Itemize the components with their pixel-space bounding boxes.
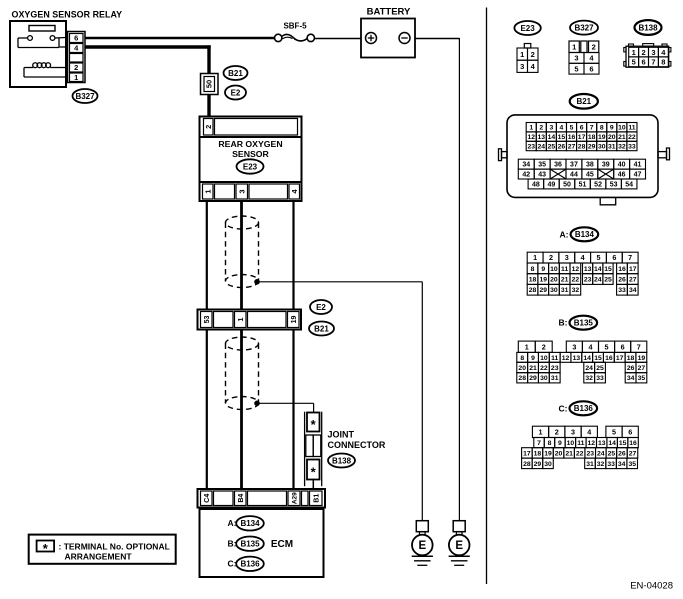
svg-text:25: 25 [604,276,612,283]
svg-text:17: 17 [578,134,586,141]
ground E (right) [449,521,470,566]
svg-text:4: 4 [589,54,594,63]
svg-text:31: 31 [608,143,616,150]
svg-text:27: 27 [629,450,637,457]
svg-text:B135: B135 [240,540,260,549]
svg-text:22: 22 [628,134,636,141]
svg-text:10: 10 [550,266,558,273]
svg-text:9: 9 [610,125,614,132]
svg-text:*: * [43,541,49,556]
svg-text:27: 27 [638,365,646,372]
wire 1 down to ECM B4 [240,330,243,490]
svg-text:3: 3 [565,253,569,262]
svg-text:20: 20 [555,450,563,457]
svg-text:2: 2 [641,48,645,57]
svg-text:30: 30 [550,287,558,294]
svg-text:13: 13 [598,440,606,447]
svg-text:10: 10 [618,125,626,132]
svg-text:8: 8 [520,355,524,362]
svg-text:B136: B136 [240,560,260,569]
svg-text:50: 50 [563,181,571,188]
svg-text:28: 28 [529,287,537,294]
pinout B21 oval [570,94,598,109]
svg-text:: TERMINAL No. OPTIONAL: : TERMINAL No. OPTIONAL [59,542,170,552]
svg-text:18: 18 [534,450,542,457]
svg-text:19: 19 [291,316,298,324]
svg-text:6: 6 [641,58,645,67]
svg-text:14: 14 [583,355,591,362]
svg-text:29: 29 [534,461,542,468]
svg-text:12: 12 [587,440,595,447]
svg-text:47: 47 [634,172,642,179]
svg-text:38: 38 [586,162,594,169]
svg-text:8: 8 [600,125,604,132]
svg-text:36: 36 [554,162,562,169]
svg-text:52: 52 [594,181,602,188]
shield twisted pair 1 (dashed) [226,216,259,288]
svg-text:32: 32 [618,143,626,150]
connector B21 oval label (top) [224,66,248,80]
wire sensor pin4 down [292,201,294,310]
junction dot shield 1 [254,279,260,285]
wire sensor pin1 down [206,201,208,310]
svg-text:E23: E23 [520,24,535,33]
svg-text:24: 24 [585,365,593,372]
svg-text:A:: A: [228,518,237,528]
svg-text:35: 35 [628,461,636,468]
svg-text:17: 17 [523,450,531,457]
wire 19 down to ECM A29 [292,330,294,490]
svg-text:5: 5 [570,125,574,132]
svg-text:14: 14 [608,440,616,447]
svg-text:32: 32 [597,461,605,468]
svg-text:34: 34 [522,162,530,169]
svg-text:34: 34 [629,287,637,294]
svg-text:10: 10 [567,440,575,447]
fuse SBF-5 [275,22,315,42]
svg-text:13: 13 [584,266,592,273]
svg-text:42: 42 [522,172,530,179]
inline connector 50 [201,74,219,95]
svg-text:27: 27 [629,276,637,283]
relay internal top bar [29,26,55,32]
pinout C:B136 label [559,401,598,415]
svg-text:1: 1 [74,73,78,82]
svg-text:2: 2 [539,125,543,132]
svg-text:25: 25 [596,365,604,372]
svg-text:B1: B1 [313,494,320,503]
svg-text:E2: E2 [231,88,241,97]
svg-text:B138: B138 [638,23,658,32]
svg-text:45: 45 [586,172,594,179]
svg-text:7: 7 [651,58,655,67]
svg-text:12: 12 [527,134,535,141]
relay connector strip pins 6 4 2 1 [68,32,86,83]
svg-text:15: 15 [619,440,627,447]
svg-text:11: 11 [551,355,558,362]
wire relay pin4 horizontal (thick) [85,45,211,48]
wire relay pin4 vertical to connector 50 [207,45,210,73]
svg-text:2: 2 [204,125,213,129]
svg-text:6: 6 [580,125,584,132]
svg-text:29: 29 [529,375,537,382]
rear oxygen sensor body E23 [200,137,302,182]
svg-text:3: 3 [572,342,576,351]
svg-text:B134: B134 [240,519,260,528]
svg-text:30: 30 [540,375,548,382]
svg-text:37: 37 [570,162,578,169]
svg-text:EN-04028: EN-04028 [630,581,673,592]
svg-text:22: 22 [540,365,548,372]
wire fuse to battery [315,38,361,40]
svg-text:18: 18 [588,134,596,141]
svg-text:31: 31 [561,287,569,294]
pinout B21 grid rows 34-47 [518,159,645,179]
joint connector B138 [305,412,322,487]
battery [361,7,415,58]
svg-text:23: 23 [586,450,594,457]
pinout B138 oval [635,20,662,35]
svg-text:11: 11 [577,440,584,447]
svg-text:4: 4 [587,427,591,436]
svg-text:9: 9 [531,355,535,362]
svg-text:18: 18 [529,276,537,283]
svg-text:2: 2 [592,42,596,51]
pinout B134 grid [527,252,638,295]
wire joint connector to ECM B1 [312,480,314,490]
svg-text:39: 39 [602,162,610,169]
svg-text:27: 27 [568,143,576,150]
svg-text:A29: A29 [291,492,298,504]
svg-text:48: 48 [532,181,540,188]
svg-text:6: 6 [628,427,632,436]
svg-text:4: 4 [290,189,299,194]
svg-text:7: 7 [628,253,632,262]
wire battery to right ground drop [415,38,459,40]
svg-text:2: 2 [549,253,553,262]
svg-text:25: 25 [548,143,556,150]
svg-text:26: 26 [618,450,626,457]
connector B21 oval label (mid) [309,322,334,336]
svg-text:B138: B138 [332,456,352,465]
svg-text:4: 4 [74,44,79,53]
pinout B135 grid [517,341,647,383]
svg-text:22: 22 [576,450,584,457]
ECM body [200,509,324,577]
svg-text:22: 22 [572,276,580,283]
svg-text:1: 1 [520,50,524,59]
svg-text:E2: E2 [316,303,326,312]
svg-text:53: 53 [610,181,618,188]
svg-text:3: 3 [520,62,524,71]
svg-text:5: 5 [632,58,636,67]
svg-text:3: 3 [237,189,246,193]
svg-text:51: 51 [579,181,587,188]
ECM top strip pins C4 B4 A29 B1 [198,489,326,508]
svg-text:30: 30 [598,143,606,150]
pinout B327 connector [569,41,599,74]
svg-text:21: 21 [529,365,537,372]
svg-text:C:: C: [559,403,568,413]
svg-text:E23: E23 [243,162,258,171]
connector E2 oval label (mid) [310,300,332,314]
svg-text:34: 34 [618,461,626,468]
svg-text:24: 24 [597,450,605,457]
relay coil [24,63,66,77]
svg-text:15: 15 [604,266,612,273]
relay box outline [10,21,66,87]
svg-text:15: 15 [594,355,602,362]
svg-text:28: 28 [523,461,531,468]
svg-text:1: 1 [533,253,537,262]
svg-text:28: 28 [578,143,586,150]
svg-text:32: 32 [572,287,580,294]
svg-text:ECM: ECM [271,539,293,550]
svg-text:3: 3 [549,125,553,132]
svg-text:40: 40 [618,162,626,169]
svg-text:12: 12 [562,355,570,362]
svg-text:2: 2 [542,342,546,351]
svg-text:*: * [311,465,317,480]
svg-text:14: 14 [548,134,556,141]
svg-text:E: E [418,540,426,552]
pinout E23 oval [514,21,540,35]
svg-text:16: 16 [605,355,613,362]
svg-text:REAR OXYGEN: REAR OXYGEN [218,139,282,149]
svg-text:21: 21 [618,134,626,141]
svg-text:3: 3 [574,54,578,63]
svg-text:4: 4 [581,253,585,262]
svg-text:44: 44 [570,172,578,179]
svg-text:SBF-5: SBF-5 [283,22,307,31]
svg-text:20: 20 [608,134,616,141]
pinout B21 grid rows 1-33 [526,123,637,151]
wire connector 50 to sensor [207,95,210,118]
svg-text:28: 28 [518,375,526,382]
svg-text:34: 34 [627,375,635,382]
svg-text:B327: B327 [75,92,95,101]
svg-text:24: 24 [538,143,546,150]
svg-text:1: 1 [572,42,576,51]
svg-text:C4: C4 [204,494,211,503]
svg-text:2: 2 [555,427,559,436]
svg-text:4: 4 [531,62,536,71]
svg-text:21: 21 [561,276,569,283]
svg-text:2: 2 [531,50,535,59]
svg-text:43: 43 [538,172,546,179]
svg-text:8: 8 [661,58,665,67]
wire sensor pin3 down [240,201,243,310]
svg-text:7: 7 [537,440,541,447]
svg-text:16: 16 [568,134,576,141]
wire 53 down to ECM C4 [206,330,208,490]
svg-text:*: * [311,417,317,432]
svg-text:B:: B: [228,539,237,549]
svg-text:35: 35 [538,162,546,169]
svg-text:9: 9 [541,266,545,273]
svg-text:23: 23 [551,365,559,372]
rear oxygen sensor top strip pin 2 [200,117,302,138]
svg-text:6: 6 [589,64,593,73]
svg-text:JOINT: JOINT [328,430,355,440]
joint connector text [328,430,386,451]
svg-text:5: 5 [612,427,616,436]
svg-text:29: 29 [588,143,596,150]
svg-text:25: 25 [608,450,616,457]
svg-text:2: 2 [74,63,78,72]
svg-text:17: 17 [616,355,624,362]
junction dot shield 2 [254,401,260,407]
svg-text:B4: B4 [238,494,245,503]
svg-text:17: 17 [629,266,637,273]
svg-text:CONNECTOR: CONNECTOR [328,440,386,450]
svg-text:26: 26 [627,365,635,372]
svg-text:A:: A: [560,229,569,239]
svg-text:9: 9 [558,440,562,447]
svg-text:19: 19 [539,276,547,283]
svg-text:5: 5 [596,253,600,262]
svg-text:E: E [455,540,463,552]
svg-text:26: 26 [618,276,626,283]
svg-text:10: 10 [540,355,548,362]
svg-text:13: 13 [573,355,581,362]
svg-text:16: 16 [618,266,626,273]
svg-text:BATTERY: BATTERY [367,7,411,18]
pinout B327 oval [570,21,598,35]
panel divider line [486,8,488,585]
svg-text:6: 6 [74,34,78,43]
svg-text:1: 1 [525,342,529,351]
svg-text:33: 33 [607,461,615,468]
pinout A:B134 label [560,227,599,241]
shield twisted pair 2 (dashed) [226,337,259,410]
svg-text:11: 11 [561,266,568,273]
svg-text:6: 6 [612,253,616,262]
svg-text:B:: B: [559,318,568,328]
svg-text:46: 46 [618,172,626,179]
svg-text:13: 13 [538,134,546,141]
svg-text:26: 26 [558,143,566,150]
svg-text:20: 20 [518,365,526,372]
svg-text:B134: B134 [575,230,595,239]
svg-text:14: 14 [594,266,602,273]
svg-text:4: 4 [588,342,592,351]
svg-text:12: 12 [572,266,580,273]
wire right ground vertical [458,38,460,521]
svg-text:21: 21 [565,450,573,457]
wire left ground vertical [421,282,423,521]
svg-text:49: 49 [548,181,556,188]
wire shield2 to joint connector [257,403,314,412]
svg-text:1: 1 [203,189,212,193]
pinout E23 connector [517,44,538,73]
svg-text:24: 24 [594,276,602,283]
svg-text:33: 33 [618,287,626,294]
relay switch contacts [18,36,66,48]
legend terminal optional arrangement [29,535,176,564]
svg-text:B21: B21 [314,324,329,333]
svg-text:53: 53 [204,316,211,324]
svg-text:33: 33 [628,143,636,150]
svg-text:7: 7 [590,125,594,132]
svg-text:SENSOR: SENSOR [232,149,269,159]
svg-text:1: 1 [529,125,533,132]
svg-text:4: 4 [560,125,564,132]
pinout B136 grid [522,426,639,468]
svg-text:35: 35 [638,375,646,382]
wire shield1 to left ground [257,281,422,283]
connector E2 oval label (top) [225,86,246,100]
svg-text:32: 32 [585,375,593,382]
pinout B21 grid row 48-54 [528,179,544,189]
svg-text:19: 19 [544,450,552,457]
svg-text:5: 5 [605,342,609,351]
svg-text:1: 1 [539,427,543,436]
pinout B:B135 label [559,316,598,330]
pinout B138 connector [624,44,671,68]
svg-text:19: 19 [598,134,606,141]
svg-text:3: 3 [651,48,655,57]
intermediate connector strip pins 53 1 19 [198,310,302,330]
rear oxygen sensor bottom strip pins 1 3 4 [200,182,302,201]
svg-text:B21: B21 [576,97,591,106]
svg-text:6: 6 [621,342,625,351]
ground E (left) [412,521,433,566]
svg-text:B136: B136 [574,404,594,413]
svg-text:19: 19 [638,355,646,362]
svg-text:20: 20 [550,276,558,283]
svg-text:15: 15 [558,134,566,141]
connector B327 oval label [73,89,98,103]
svg-text:1: 1 [632,48,636,57]
svg-text:B327: B327 [574,23,594,32]
wire relay pin6 to fuse [85,37,275,39]
svg-text:B135: B135 [574,319,594,328]
svg-text:8: 8 [531,266,535,273]
svg-text:3: 3 [571,427,575,436]
svg-text:31: 31 [586,461,594,468]
pinout B21 connector shell [499,115,670,205]
svg-text:B21: B21 [228,69,243,78]
svg-text:23: 23 [527,143,535,150]
svg-text:7: 7 [637,342,641,351]
svg-text:1: 1 [236,317,245,321]
svg-text:C:: C: [228,559,237,569]
svg-text:29: 29 [539,287,547,294]
svg-text:23: 23 [584,276,592,283]
svg-text:33: 33 [596,375,604,382]
svg-text:16: 16 [629,440,637,447]
svg-text:31: 31 [551,375,559,382]
connector B138 oval label [328,454,355,468]
svg-text:41: 41 [634,162,642,169]
svg-text:54: 54 [625,181,633,188]
svg-text:30: 30 [544,461,552,468]
svg-text:11: 11 [628,125,635,132]
svg-text:OXYGEN SENSOR RELAY: OXYGEN SENSOR RELAY [12,10,123,20]
svg-text:5: 5 [574,64,578,73]
svg-text:8: 8 [548,440,552,447]
svg-text:4: 4 [661,48,666,57]
svg-text:50: 50 [205,80,214,88]
svg-text:ARRANGEMENT: ARRANGEMENT [65,552,133,562]
svg-text:18: 18 [627,355,635,362]
